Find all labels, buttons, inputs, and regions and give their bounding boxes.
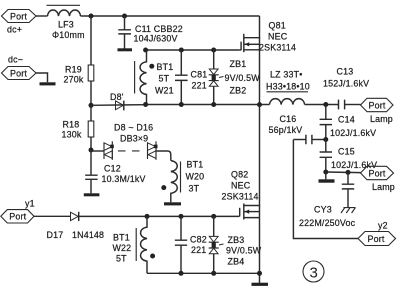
wire port dc+ to LF3 (36, 15, 48, 17)
zener pair ZB3/ZB4 (209, 216, 262, 273)
svg-text:CY3: CY3 (314, 205, 332, 215)
wire bottom of second stage (147, 272, 260, 274)
ground under W20 (164, 202, 181, 205)
svg-text:2SK3114: 2SK3114 (222, 192, 259, 202)
svg-text:LF3: LF3 (58, 20, 74, 30)
diode D8' (110, 92, 124, 110)
zener pair ZB1/ZB2 (209, 50, 261, 105)
svg-text:BT1: BT1 (113, 233, 130, 243)
svg-text:LZ 33T•: LZ 33T• (270, 70, 302, 80)
capacitor C82 (175, 216, 207, 273)
node W21 bottom (143, 102, 148, 107)
svg-text:W20: W20 (186, 172, 205, 182)
svg-text:152J/1.6kV: 152J/1.6kV (323, 79, 369, 89)
svg-text:dc+: dc+ (7, 25, 22, 35)
page number circle 3 (303, 261, 324, 282)
transformer winding W22 (113, 216, 156, 273)
svg-text:W21: W21 (155, 86, 174, 96)
svg-text:R19: R19 (65, 65, 82, 75)
svg-text:Q82: Q82 (231, 170, 248, 180)
node C16/C14/C15 junction (323, 137, 328, 142)
node ZB1 top (211, 48, 216, 53)
svg-text:56p/1kV: 56p/1kV (269, 125, 303, 135)
svg-text:Φ10mm: Φ10mm (52, 30, 85, 40)
port dc- (2, 55, 37, 80)
resistor R19 (64, 16, 94, 105)
mosfet Q81 (239, 16, 296, 105)
svg-text:9V/0.5W: 9V/0.5W (226, 246, 262, 256)
node C11 top junction (122, 14, 127, 19)
svg-text:ZB3: ZB3 (228, 235, 245, 245)
wire diac to W20 (157, 151, 171, 161)
port y1 (1, 199, 35, 224)
capacitor C12 (85, 150, 145, 193)
svg-text:D8': D8' (110, 92, 124, 102)
node C82 bottom (179, 271, 184, 276)
svg-text:dc−: dc− (8, 55, 23, 65)
svg-text:y1: y1 (25, 199, 35, 209)
svg-text:Port: Port (368, 234, 385, 244)
wire D8' line (91, 104, 146, 107)
chassis ground under CY3 (341, 208, 356, 213)
port y2 (358, 221, 396, 246)
node R19/R18 junction (89, 103, 94, 108)
wire top rail (81, 15, 260, 17)
svg-text:5T: 5T (116, 254, 127, 264)
inductor LF3 (47, 5, 85, 40)
svg-text:R18: R18 (63, 120, 80, 130)
wire to diac chain (91, 150, 104, 152)
port Lamp 2 (361, 166, 395, 192)
wire port dc- to ground (36, 73, 48, 82)
svg-text:Port: Port (10, 68, 27, 78)
ground stub under C15 junction (325, 172, 327, 179)
capacitor C81 (175, 50, 207, 105)
svg-text:Port: Port (10, 11, 27, 21)
svg-text:Port: Port (369, 100, 386, 110)
ground under Q82 (252, 283, 269, 286)
capacitor C11 (118, 16, 183, 49)
svg-text:9V/0.5W: 9V/0.5W (225, 73, 261, 83)
resistor R18 (62, 105, 94, 150)
node C15 bottom junction (323, 170, 328, 175)
svg-text:H33•18•10: H33•18•10 (266, 82, 310, 92)
svg-text:y2: y2 (378, 221, 388, 231)
capacitor C13 (323, 67, 369, 110)
capacitor C16 (269, 114, 326, 145)
dashed wire between diacs (118, 150, 141, 152)
svg-text:1N4148: 1N4148 (72, 230, 104, 240)
svg-text:102J/1.6kV: 102J/1.6kV (330, 128, 376, 138)
svg-text:DB3×9: DB3×9 (120, 134, 148, 144)
node C81 top (179, 48, 184, 53)
svg-text:5T: 5T (159, 74, 170, 84)
wire LZ to C13 (305, 104, 339, 106)
node LZ/C13/C14 junction (323, 102, 328, 107)
port dc+ (2, 10, 37, 35)
ground under C12 (84, 193, 100, 196)
svg-text:C13: C13 (337, 67, 354, 77)
svg-text:130k: 130k (62, 130, 82, 140)
svg-text:222M/250Voc: 222M/250Voc (299, 218, 356, 228)
svg-text:ZB2: ZB2 (230, 86, 247, 96)
wire D17 to Q82 gate (79, 215, 240, 217)
inductor LZ (266, 70, 310, 105)
wire W21 top rail (146, 49, 240, 51)
node R18 bottom junction (89, 148, 94, 153)
node CY3 tap (346, 170, 351, 175)
node C82 top (179, 214, 184, 219)
svg-text:270k: 270k (64, 75, 84, 85)
svg-text:C81: C81 (191, 70, 208, 80)
svg-text:Lamp: Lamp (370, 114, 393, 124)
capacitor CY3 (299, 172, 356, 228)
node Q81 source junction (257, 102, 262, 107)
svg-text:C11 CBB22: C11 CBB22 (135, 24, 183, 34)
svg-text:ZB1: ZB1 (230, 59, 247, 69)
svg-text:BT1: BT1 (157, 62, 174, 72)
svg-text:C82: C82 (190, 235, 207, 245)
svg-text:ZB4: ZB4 (228, 257, 245, 267)
svg-text:221: 221 (192, 81, 207, 91)
diac D16 (148, 141, 158, 160)
node C81 bottom (179, 102, 184, 107)
svg-text:Port: Port (9, 212, 26, 222)
capacitor C14 (320, 105, 377, 140)
node ZB3 top (211, 214, 216, 219)
capacitor C15 (320, 140, 378, 173)
ground under C11 (118, 48, 133, 51)
node ZB2 bottom (211, 102, 216, 107)
ground dc- (40, 82, 56, 85)
svg-text:D8 ~ D16: D8 ~ D16 (114, 123, 153, 133)
port Lamp 1 (361, 98, 394, 124)
node top-left junction (89, 14, 94, 19)
diode D17 (47, 212, 105, 240)
mosfet Q82 (222, 105, 260, 283)
svg-text:BT1: BT1 (187, 160, 204, 170)
wire bottom of first stage (146, 104, 270, 106)
svg-text:Q81: Q81 (269, 21, 286, 31)
transformer winding W21 (135, 50, 174, 105)
svg-text:Lamp: Lamp (372, 182, 395, 192)
node ZB4 bottom (211, 271, 216, 276)
node Q82 source junction (257, 271, 262, 276)
svg-text:NEC: NEC (231, 181, 251, 191)
svg-text:W22: W22 (113, 243, 132, 253)
svg-text:104J/630V: 104J/630V (134, 34, 178, 44)
svg-text:2SK3114: 2SK3114 (259, 43, 296, 53)
svg-text:221: 221 (191, 245, 206, 255)
svg-text:Port: Port (369, 168, 386, 178)
svg-text:C15: C15 (338, 147, 355, 157)
svg-text:C16: C16 (280, 114, 297, 124)
wire C15 bottom to port Lamp2 (326, 171, 361, 174)
svg-text:NEC: NEC (268, 32, 288, 42)
node W22 top (145, 214, 150, 219)
svg-text:3: 3 (310, 265, 318, 282)
diac D8 (104, 141, 114, 160)
svg-text:3T: 3T (189, 184, 200, 194)
node W21 top (143, 48, 148, 53)
wire C16 left down to port y2 (293, 140, 358, 239)
svg-text:C12: C12 (104, 164, 121, 174)
svg-text:10.3M/1kV: 10.3M/1kV (102, 174, 146, 184)
svg-text:C14: C14 (338, 115, 355, 125)
transformer winding W20 (161, 160, 204, 203)
wire y1 to D17 (34, 215, 71, 217)
svg-text:D17: D17 (47, 230, 64, 240)
